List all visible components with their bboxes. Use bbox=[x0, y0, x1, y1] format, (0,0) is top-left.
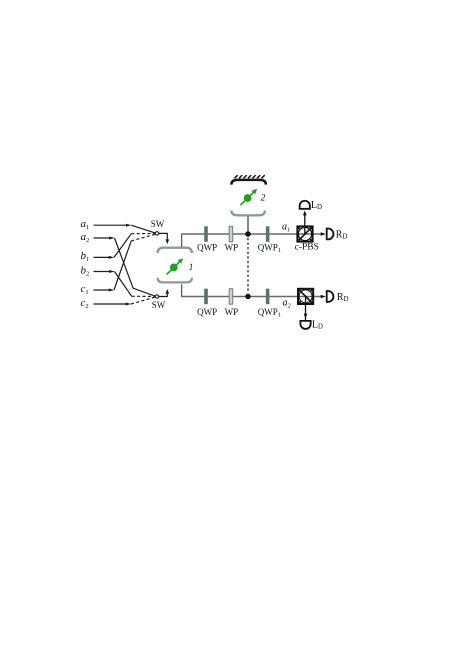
wire b2 to switch SW2 solid then dashed bbox=[115, 272, 155, 297]
node a1 input label bbox=[81, 218, 90, 231]
wire right arrow to detector RD2 bbox=[321, 295, 326, 299]
svg-text:WP: WP bbox=[225, 307, 239, 317]
svg-text:a1: a1 bbox=[282, 222, 290, 234]
detector LD2 dome bbox=[300, 321, 310, 329]
svg-text:a2: a2 bbox=[283, 298, 292, 310]
svg-text:b1: b1 bbox=[81, 250, 90, 263]
c-PBS U1 cube upper bbox=[296, 226, 313, 241]
wire SW2 to cavity C1 bottom with up arrow bbox=[159, 289, 169, 297]
svg-text:SW: SW bbox=[152, 300, 166, 310]
wire a1 to switch SW1 solid bbox=[131, 225, 155, 233]
c-PBS U2 cube lower bbox=[297, 289, 314, 304]
wire right arrow to detector RD1 bbox=[321, 232, 326, 236]
QWP1 upper label bbox=[258, 243, 281, 255]
wire a1 input arrow bbox=[94, 224, 132, 227]
svg-text:RD: RD bbox=[337, 292, 349, 303]
wire c1 input arrow bbox=[94, 289, 115, 292]
detector LD1 dome bbox=[300, 201, 310, 209]
svg-text:c2: c2 bbox=[81, 297, 89, 310]
wire c2 input arrow bbox=[94, 303, 132, 306]
wire cavity C1 top output to upper path bbox=[181, 234, 183, 247]
mode a2 label lower path bbox=[283, 298, 292, 310]
wire a2 input arrow bbox=[94, 237, 115, 240]
atom 2 label bbox=[261, 193, 266, 203]
svg-text:2: 2 bbox=[261, 193, 266, 203]
svg-text:LD: LD bbox=[311, 200, 322, 211]
wire c1 to switch SW1 solid then dashed bbox=[114, 234, 155, 290]
atom 1 spin arrow bbox=[167, 258, 184, 274]
atom 1 label bbox=[189, 262, 194, 272]
wire lower beam path bbox=[181, 296, 322, 298]
switch SW1 label bbox=[151, 219, 165, 229]
svg-text:c1: c1 bbox=[81, 283, 89, 296]
switch SW2 node circle bbox=[155, 295, 158, 298]
junction dot upper path bbox=[245, 231, 251, 237]
QWP1 quarter-wave plate lower bbox=[266, 289, 270, 305]
atom 2 green circle bbox=[244, 194, 252, 202]
wire up arrow to detector LD1 bbox=[303, 210, 307, 233]
svg-text:c-PBS: c-PBS bbox=[295, 243, 319, 253]
wire b1 input arrow bbox=[94, 256, 115, 259]
switch SW2 label bbox=[152, 300, 166, 310]
WP wave plate lower bbox=[229, 289, 233, 305]
wire b1 to switch SW1 solid then dashed bbox=[114, 234, 155, 258]
node c2 input label bbox=[81, 297, 89, 310]
junction dot lower path bbox=[245, 294, 251, 300]
svg-text:QWP1: QWP1 bbox=[258, 307, 281, 319]
atom 1 green circle bbox=[170, 264, 178, 272]
svg-text:b2: b2 bbox=[81, 264, 90, 277]
QWP quarter-wave plate lower bbox=[204, 289, 208, 305]
svg-text:SW: SW bbox=[151, 219, 165, 229]
wire a2 to switch SW2 solid bbox=[115, 238, 156, 296]
svg-text:1: 1 bbox=[189, 262, 194, 272]
svg-text:LD: LD bbox=[312, 319, 323, 330]
node b1 input label bbox=[81, 250, 90, 263]
node b2 input label bbox=[81, 264, 90, 277]
WP upper label bbox=[225, 243, 239, 253]
detector RD1 D-shape bbox=[327, 229, 334, 240]
cavity C1 bottom mirror bbox=[158, 278, 192, 283]
svg-text:RD: RD bbox=[336, 229, 348, 240]
detector RD2 label bbox=[337, 292, 349, 303]
QWP1 lower label bbox=[258, 307, 281, 319]
wire down arrow to detector LD2 bbox=[304, 297, 308, 321]
wire cavity C1 bottom output to lower path bbox=[181, 284, 183, 296]
node a2 input label bbox=[81, 231, 90, 244]
cavity C1 top mirror bbox=[158, 248, 192, 253]
detector LD1 label bbox=[311, 200, 322, 211]
switch SW1 node circle bbox=[155, 232, 158, 235]
svg-text:QWP1: QWP1 bbox=[258, 243, 281, 255]
detector LD2 label bbox=[312, 319, 323, 330]
detector RD1 label bbox=[336, 229, 348, 240]
QWP lower label bbox=[197, 307, 217, 317]
svg-text:QWP: QWP bbox=[197, 243, 217, 253]
wire dashed vertical between junctions bbox=[247, 238, 249, 293]
wire b2 input arrow bbox=[94, 270, 115, 273]
QWP1 quarter-wave plate upper bbox=[266, 226, 270, 242]
node c1 input label bbox=[81, 283, 89, 296]
mode a1 label upper path bbox=[282, 222, 290, 234]
atom 2 spin arrow bbox=[240, 189, 257, 205]
wire cavity C2 to upper junction bbox=[247, 215, 249, 231]
wire upper beam path bbox=[181, 233, 322, 235]
wire c2 to switch SW2 dashed bbox=[131, 297, 155, 304]
WP wave plate upper bbox=[229, 226, 233, 242]
c-PBS label bbox=[295, 243, 319, 253]
svg-text:a2: a2 bbox=[81, 231, 90, 244]
WP lower label bbox=[225, 307, 239, 317]
cavity C2 mirror hatching bbox=[235, 175, 265, 178]
detector RD2 D-shape bbox=[327, 291, 334, 302]
cavity C2 bottom mirror bbox=[231, 211, 265, 216]
svg-text:QWP: QWP bbox=[197, 307, 217, 317]
QWP quarter-wave plate upper bbox=[204, 226, 208, 242]
wire SW1 to cavity C1 top with down arrow bbox=[159, 233, 169, 244]
cavity C2 top mirror fixed bbox=[231, 180, 266, 185]
svg-text:a1: a1 bbox=[81, 218, 90, 231]
svg-text:WP: WP bbox=[225, 243, 239, 253]
QWP upper label bbox=[197, 243, 217, 253]
